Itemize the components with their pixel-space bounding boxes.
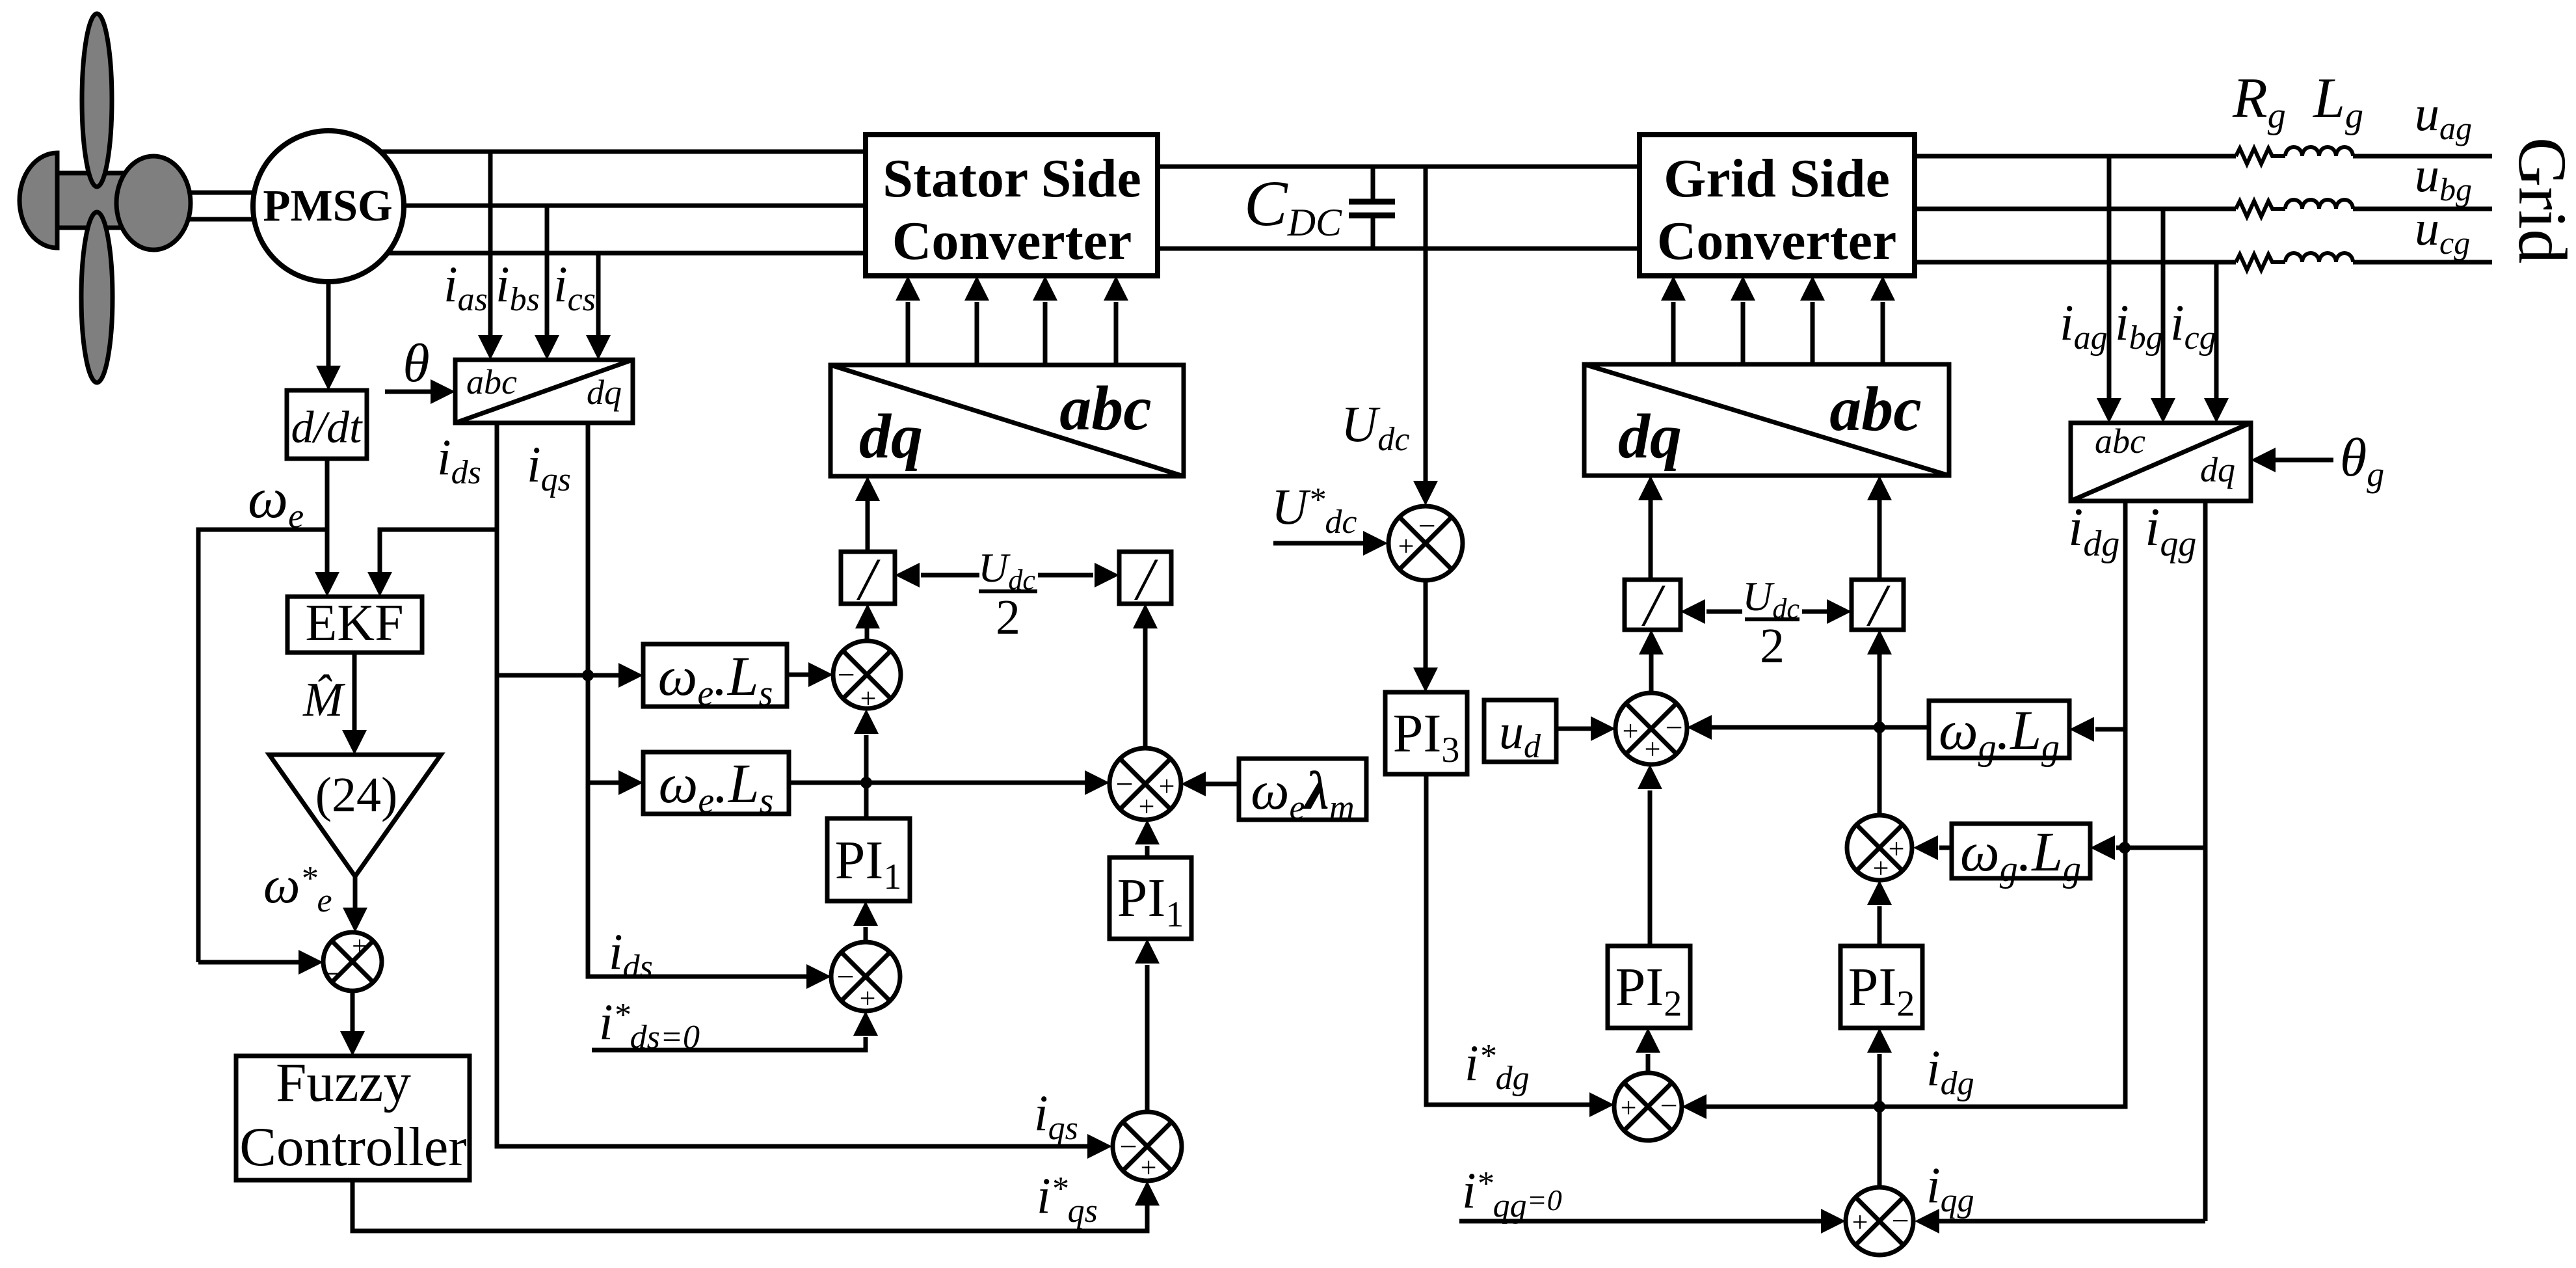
arrowhead iqg-ref into junction (1821, 1209, 1846, 1234)
fraction bar Udc over 2 stator (979, 589, 1037, 593)
wire ids junction to PI1l (864, 927, 868, 942)
wire theta-g input (2274, 458, 2333, 463)
arrowhead Lg2 junction into divider (1867, 630, 1892, 654)
wire omega-e branch (198, 530, 327, 962)
wire current branch to EKF (380, 530, 497, 573)
svg-text:Grid Side: Grid Side (1664, 148, 1890, 209)
wire current tap iag (2107, 156, 2112, 399)
arrowhead into omega-e-Ls2 (618, 770, 643, 795)
svg-text:2: 2 (1760, 619, 1785, 673)
arrowhead PI2l into ud junction (1638, 764, 1662, 789)
block divider grid right (1852, 580, 1904, 630)
junction dot Ls2 line crossing (860, 777, 872, 789)
wire d/dt to EKF (325, 459, 330, 573)
arrowhead grid gate3 (1800, 276, 1825, 301)
arrowhead q-junction into divider (1133, 604, 1158, 628)
svg-text:−: − (323, 957, 340, 990)
wire divider to grid dq-abc left (1649, 500, 1653, 580)
resistor Rg phase b (2236, 201, 2285, 217)
svg-text:+: + (1141, 1152, 1157, 1183)
svg-text:Controller: Controller (239, 1116, 466, 1178)
wire Udc junction to PI3 (1424, 580, 1428, 669)
wire Ls1 to d-axis junction (787, 673, 810, 677)
summing junction qg voltage (1847, 815, 1912, 880)
wire EKF to gain triangle (352, 653, 357, 731)
block omega-g-Lg 1 (1929, 701, 2069, 758)
wire triangle to summing junction (353, 876, 358, 910)
svg-text:+: + (1139, 790, 1155, 822)
svg-text:(24): (24) (315, 768, 398, 822)
svg-text:dq: dq (1618, 401, 1682, 472)
arrowhead Udc2 left (895, 563, 920, 587)
svg-text:Grid: Grid (2504, 137, 2576, 263)
wire idg junction to PI2l (1646, 1054, 1651, 1073)
wire grid phase b (1915, 207, 2236, 211)
wire iqs output (left output of abc-dq) (497, 423, 1089, 1146)
wire junction to divider left (865, 628, 870, 641)
wire q-junction to right divider (1143, 628, 1148, 748)
inductor Lg phase b (2285, 200, 2353, 209)
wire ud junction to divider (1649, 654, 1654, 693)
block omega-e-Ls 1 (643, 644, 787, 707)
wire DC link positive (1158, 165, 1640, 169)
block omega-e-Ls 2 (643, 752, 789, 814)
arrowhead ud into junction (1591, 716, 1615, 741)
block omega-g-Lg 2 (1952, 824, 2090, 878)
arrowhead iag into abc-dq (2097, 398, 2121, 423)
wire PI1l to d-junction (864, 735, 869, 818)
svg-text:abc: abc (1059, 373, 1152, 444)
arrowhead junction into PI3 (1413, 668, 1438, 692)
arrowhead grid gate1 (1661, 276, 1686, 301)
wire gate signal 3 (1043, 302, 1048, 365)
summing junction speed error (323, 932, 382, 991)
wire current tap ibg (2161, 209, 2166, 399)
svg-text:+: + (1159, 770, 1175, 802)
arrowhead icg into abc-dq (2204, 398, 2229, 423)
wire Ls2 line to q-junction (789, 781, 1085, 785)
wire gate signal 1 (906, 302, 910, 365)
svg-text:2: 2 (996, 590, 1020, 645)
wire grid gate 4 (1881, 302, 1885, 364)
arrowhead iqs into junction (1087, 1134, 1112, 1159)
wire Udc2 to right divider (1038, 573, 1093, 578)
svg-text:Stator Side: Stator Side (883, 148, 1141, 209)
arrowhead ids-ref into junction (853, 1011, 878, 1036)
block dq-abc grid (1584, 364, 1949, 476)
block abc-dq grid (2071, 423, 2251, 501)
svg-text:abc: abc (1829, 374, 1922, 444)
svg-text:dq: dq (859, 401, 923, 472)
svg-text:−: − (1119, 1129, 1137, 1164)
wire iqs junction to PI1r (1145, 965, 1150, 1112)
wire iqg branch to Lg2 (2116, 846, 2205, 850)
wire ud to junction (1556, 727, 1592, 731)
svg-text:−: − (1891, 1204, 1909, 1238)
wire iqg-ref line (1459, 1219, 1821, 1224)
block EKF (287, 597, 422, 653)
wind turbine blade bottom (81, 212, 113, 383)
arrowhead PI1r into q-junction (1135, 820, 1160, 844)
arrowhead d-junction into divider (855, 604, 880, 628)
wire grid phase a (1915, 154, 2236, 159)
svg-text:−: − (1665, 710, 1682, 745)
block PI3 (1385, 692, 1467, 774)
svg-text:+: + (1852, 1206, 1868, 1238)
arrowhead PI1l into d-junction (854, 709, 879, 734)
arrowhead divider into dq-abc right (1867, 476, 1892, 500)
wire current tap ics (596, 253, 601, 336)
wire divider to dq-abc (866, 501, 870, 552)
block dq-abc stator (830, 365, 1184, 476)
wire stator phase b (404, 204, 866, 208)
arrowhead ibs into abc-dq (535, 335, 559, 360)
wire gate signal 2 (975, 302, 979, 365)
wire grid gate 1 (1671, 302, 1676, 364)
wire divider to grid dq-abc right (1878, 500, 1882, 580)
svg-text:EKF: EKF (305, 595, 403, 652)
svg-text:+: + (352, 932, 367, 962)
arrowhead Udc into junction (1413, 481, 1438, 506)
wire omega-g-Lg2 to junction (1939, 846, 1952, 850)
wire qg junction to PI2r (1878, 1054, 1882, 1187)
wire stator phase c (388, 251, 866, 256)
arrowhead EKF into triangle (342, 730, 367, 755)
arrowhead divider into dq-abc (855, 476, 880, 501)
wire Udc2 to left divider (921, 573, 979, 578)
arrowhead grid gate2 (1731, 276, 1755, 301)
svg-text:+: + (1398, 530, 1414, 562)
arrowhead ids into junction (806, 964, 831, 989)
block divider stator left (841, 552, 895, 604)
arrowhead into omega-e-Ls1 (618, 663, 643, 688)
arrowhead PI2r into Lg2 junction (1867, 880, 1892, 905)
wire Lg2 junction up to divider (1878, 654, 1882, 815)
wire junction to fuzzy controller (351, 991, 355, 1032)
block Fuzzy Controller (236, 1056, 470, 1180)
wire grid phase c (1915, 260, 2236, 265)
arrowhead Ls2 into q-junction (1085, 770, 1109, 795)
wire iqg feedback (1939, 1219, 2205, 1224)
wire PMSG to d/dt (326, 282, 331, 367)
wire current tap ias (488, 152, 493, 336)
wire omega-g-Lg1 to ud junction (1712, 725, 1929, 730)
wire grid gate 3 (1811, 302, 1815, 364)
wind turbine body (56, 173, 127, 228)
arrowhead Lg2 into junction (1913, 835, 1938, 860)
wire Udc-ref input (1273, 541, 1364, 546)
arrowhead triangle into junction (343, 908, 367, 932)
arrowhead PMSG into d/dt (316, 366, 341, 390)
svg-text:−: − (1660, 1088, 1677, 1123)
arrowhead divider into dq-abc left (1638, 476, 1663, 500)
svg-text:d/dt: d/dt (291, 403, 363, 453)
block divider grid left (1625, 580, 1680, 630)
wire ids output (right output of abc-dq) (588, 423, 808, 977)
block Grid Side Converter (1640, 135, 1915, 276)
svg-text:+: + (1621, 1092, 1637, 1124)
summing junction Udc (1388, 506, 1463, 580)
wire current tap icg (2214, 262, 2219, 399)
block d/dt (287, 390, 367, 459)
summing junction idg (1614, 1073, 1682, 1140)
summing junction ud (1615, 693, 1687, 764)
block PI1 right (1109, 857, 1191, 939)
wire PI2r to Lg2 junction (1878, 906, 1882, 946)
wind turbine nose cone (20, 153, 57, 248)
arrowhead idg-ref into junction (1589, 1092, 1614, 1117)
wire current tap ibs (545, 206, 550, 336)
wind turbine blade top (82, 14, 112, 187)
arrowhead theta into abc-dq (431, 379, 455, 404)
block PI2 left (1608, 946, 1690, 1028)
wire PI1r to q-junction (1145, 846, 1150, 857)
svg-text:+: + (1889, 833, 1905, 865)
arrowhead feedback into junction (299, 950, 323, 975)
svg-text:−: − (1115, 767, 1133, 802)
arrowhead gate2 into converter (964, 276, 989, 301)
block PI1 left (827, 818, 910, 901)
capacitor CDC (1371, 167, 1375, 249)
svg-text:+: + (860, 682, 877, 714)
wire branch to omega-e-Ls2 (588, 781, 620, 785)
svg-text:Fuzzy: Fuzzy (276, 1052, 411, 1113)
wire Udc sense (1424, 167, 1428, 482)
arrowhead Udc2 right (1095, 563, 1119, 587)
wire idg branch to Lg1 (2095, 727, 2125, 732)
gain block (24) triangle (269, 755, 441, 876)
arrowhead idg into Lg1 (2069, 717, 2094, 742)
wind turbine hub (116, 156, 191, 250)
arrowhead iqg into junction (1915, 1209, 1939, 1234)
arrowhead lambda into q-junction (1181, 772, 1206, 796)
wire ids-ref line (592, 1037, 866, 1050)
arrowhead Udc2 grid left (1680, 599, 1705, 624)
block PI2 right (1840, 946, 1922, 1028)
svg-text:+: + (860, 982, 876, 1014)
wire grid gate 2 (1741, 302, 1746, 364)
arrowhead grid gate4 (1870, 276, 1895, 301)
arrowhead iqg into Lg2 (2090, 835, 2115, 860)
block ud (1484, 700, 1556, 762)
inductor Lg phase c (2285, 253, 2353, 262)
arrowhead gate4 into converter (1104, 276, 1128, 301)
arrowhead iqs junction into PI1r (1135, 939, 1160, 964)
wire lambda to q-junction (1206, 782, 1239, 787)
inductor Lg phase a (2285, 147, 2353, 156)
wire idg feedback (1706, 501, 2125, 1107)
arrowhead idg junction into PI2l (1636, 1028, 1660, 1053)
svg-text:Converter: Converter (892, 211, 1132, 271)
resistor Rg phase a (2236, 148, 2285, 164)
arrowhead current into EKF (367, 572, 392, 597)
arrowhead gate1 into converter (896, 276, 920, 301)
wire Udc2 grid right (1802, 610, 1827, 614)
wire PI3 to idg-ref junction (1426, 774, 1591, 1105)
svg-text:abc: abc (466, 362, 517, 401)
wire theta input (385, 390, 432, 394)
svg-text:−: − (837, 658, 855, 692)
fraction bar Udc over 2 grid (1745, 617, 1799, 621)
junction dot Lg2 feed crossing (2119, 842, 2131, 854)
wire DC link negative (1158, 247, 1640, 251)
arrowhead Ls1 into d-junction (808, 662, 833, 687)
arrowhead omega-e into EKF (315, 572, 339, 597)
svg-text:+: + (1873, 852, 1889, 884)
svg-text:ωe.Ls: ωe.Ls (658, 645, 773, 714)
summing junction iqg (1846, 1187, 1913, 1255)
summing junction q-axis voltage (1109, 748, 1181, 820)
junction dot idg line crossing (1874, 1101, 1885, 1113)
block divider stator right (1119, 552, 1171, 604)
arrowhead theta-g into abc-dq (2251, 448, 2276, 472)
arrowhead ids junction into PI1l (853, 901, 878, 926)
arrowhead gate3 into converter (1033, 276, 1057, 301)
wire speed feedback arrow (198, 960, 300, 965)
wire iqg vertical (2203, 501, 2208, 1221)
arrowhead idg into junction (1682, 1094, 1706, 1119)
block omega-e-lambda-m (1239, 759, 1366, 820)
wire gate signal 4 (1114, 302, 1119, 365)
junction dot iqs to Ls1 crossing (582, 669, 594, 681)
arrowhead into fuzzy controller (340, 1031, 365, 1056)
svg-text:M̂: M̂ (302, 673, 346, 727)
arrowhead Lg1 into ud junction (1687, 715, 1712, 740)
summing junction iqs (1113, 1112, 1182, 1181)
generator PMSG (253, 131, 404, 282)
wire Udc2 grid left (1706, 610, 1742, 614)
svg-text:−: − (836, 960, 854, 994)
svg-text:θ: θ (403, 333, 429, 394)
junction dot Lg1 line crossing (1874, 722, 1885, 733)
block Stator Side Converter (866, 135, 1158, 276)
block abc-dq stator (455, 360, 633, 423)
arrowhead ics into abc-dq (586, 335, 611, 360)
arrowhead ias into abc-dq (478, 335, 503, 360)
svg-text:+: + (1623, 715, 1639, 747)
svg-text:dq: dq (587, 373, 622, 412)
wire fuzzy output to iqs junction (352, 1180, 1147, 1231)
summing junction ids (831, 942, 900, 1011)
turbine shaft (182, 193, 257, 219)
arrowhead fuzzy line into iqs junction (1135, 1181, 1160, 1206)
svg-text:abc: abc (2095, 422, 2145, 461)
summing junction d-axis voltage (833, 641, 901, 708)
arrowhead Udc2 grid right (1827, 599, 1852, 624)
arrowhead ud junction into divider (1639, 630, 1664, 654)
svg-text:ωe.Ls: ωe.Ls (659, 752, 774, 821)
arrowhead Udc-ref into junction (1363, 531, 1388, 556)
resistor Rg phase c (2236, 254, 2285, 270)
wire stator phase a (380, 150, 866, 154)
wire branch to omega-e-Ls1 (497, 673, 620, 678)
svg-text:Converter: Converter (1657, 211, 1896, 271)
svg-text:PMSG: PMSG (263, 181, 392, 230)
svg-text:+: + (1645, 733, 1661, 765)
svg-text:dq: dq (2200, 450, 2235, 489)
wire PI2l to ud junction (1648, 790, 1653, 946)
arrowhead ibg into abc-dq (2151, 398, 2175, 423)
svg-text:−: − (1418, 509, 1435, 543)
arrowhead qg junction into PI2r (1867, 1028, 1892, 1053)
